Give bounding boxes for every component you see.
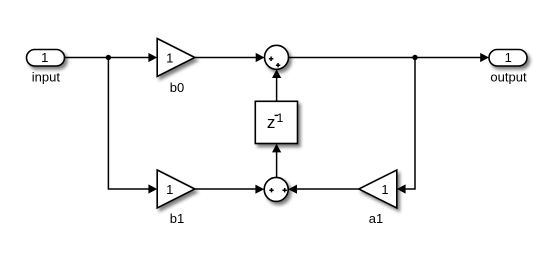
svg-text:output: output (490, 70, 527, 85)
wire sum1 to output (289, 57, 482, 59)
svg-text:1: 1 (505, 50, 512, 65)
sum U2 plus left (269, 188, 273, 192)
node junction on input wire (106, 55, 111, 60)
unit delay block (255, 101, 297, 143)
sum U1 top (265, 45, 289, 69)
wire delay up to sum1 (276, 77, 278, 102)
wire a1 to sum2 (296, 188, 358, 190)
wire b0 to sum1 (195, 57, 257, 59)
wire b1 to sum2 (195, 188, 257, 190)
svg-text:1: 1 (277, 111, 284, 125)
sum U1 plus bottom (276, 63, 280, 67)
sum U2 plus right (283, 188, 287, 192)
unit delay exponent minus (275, 114, 278, 116)
svg-text:1: 1 (381, 182, 388, 197)
wire input to b0 (65, 57, 150, 59)
svg-text:1: 1 (166, 182, 173, 197)
sum U1 plus left (269, 57, 273, 61)
svg-text:b0: b0 (170, 80, 184, 95)
sum U2 bottom (264, 177, 288, 201)
svg-text:a1: a1 (369, 211, 383, 226)
svg-text:b1: b1 (170, 211, 184, 226)
wire junction down to b1 (108, 58, 149, 190)
svg-text:1: 1 (166, 50, 173, 65)
gain b1 (157, 170, 195, 208)
wire junction down to a1 (405, 58, 415, 190)
svg-text:z: z (267, 113, 276, 132)
svg-text:input: input (32, 70, 61, 85)
node junction on output wire (412, 55, 417, 60)
svg-text:1: 1 (41, 50, 48, 65)
inport block input (27, 50, 65, 67)
outport block output (489, 50, 527, 67)
wire sum2 up to delay (276, 151, 278, 177)
gain a1 (359, 170, 397, 208)
gain b0 (157, 39, 195, 77)
